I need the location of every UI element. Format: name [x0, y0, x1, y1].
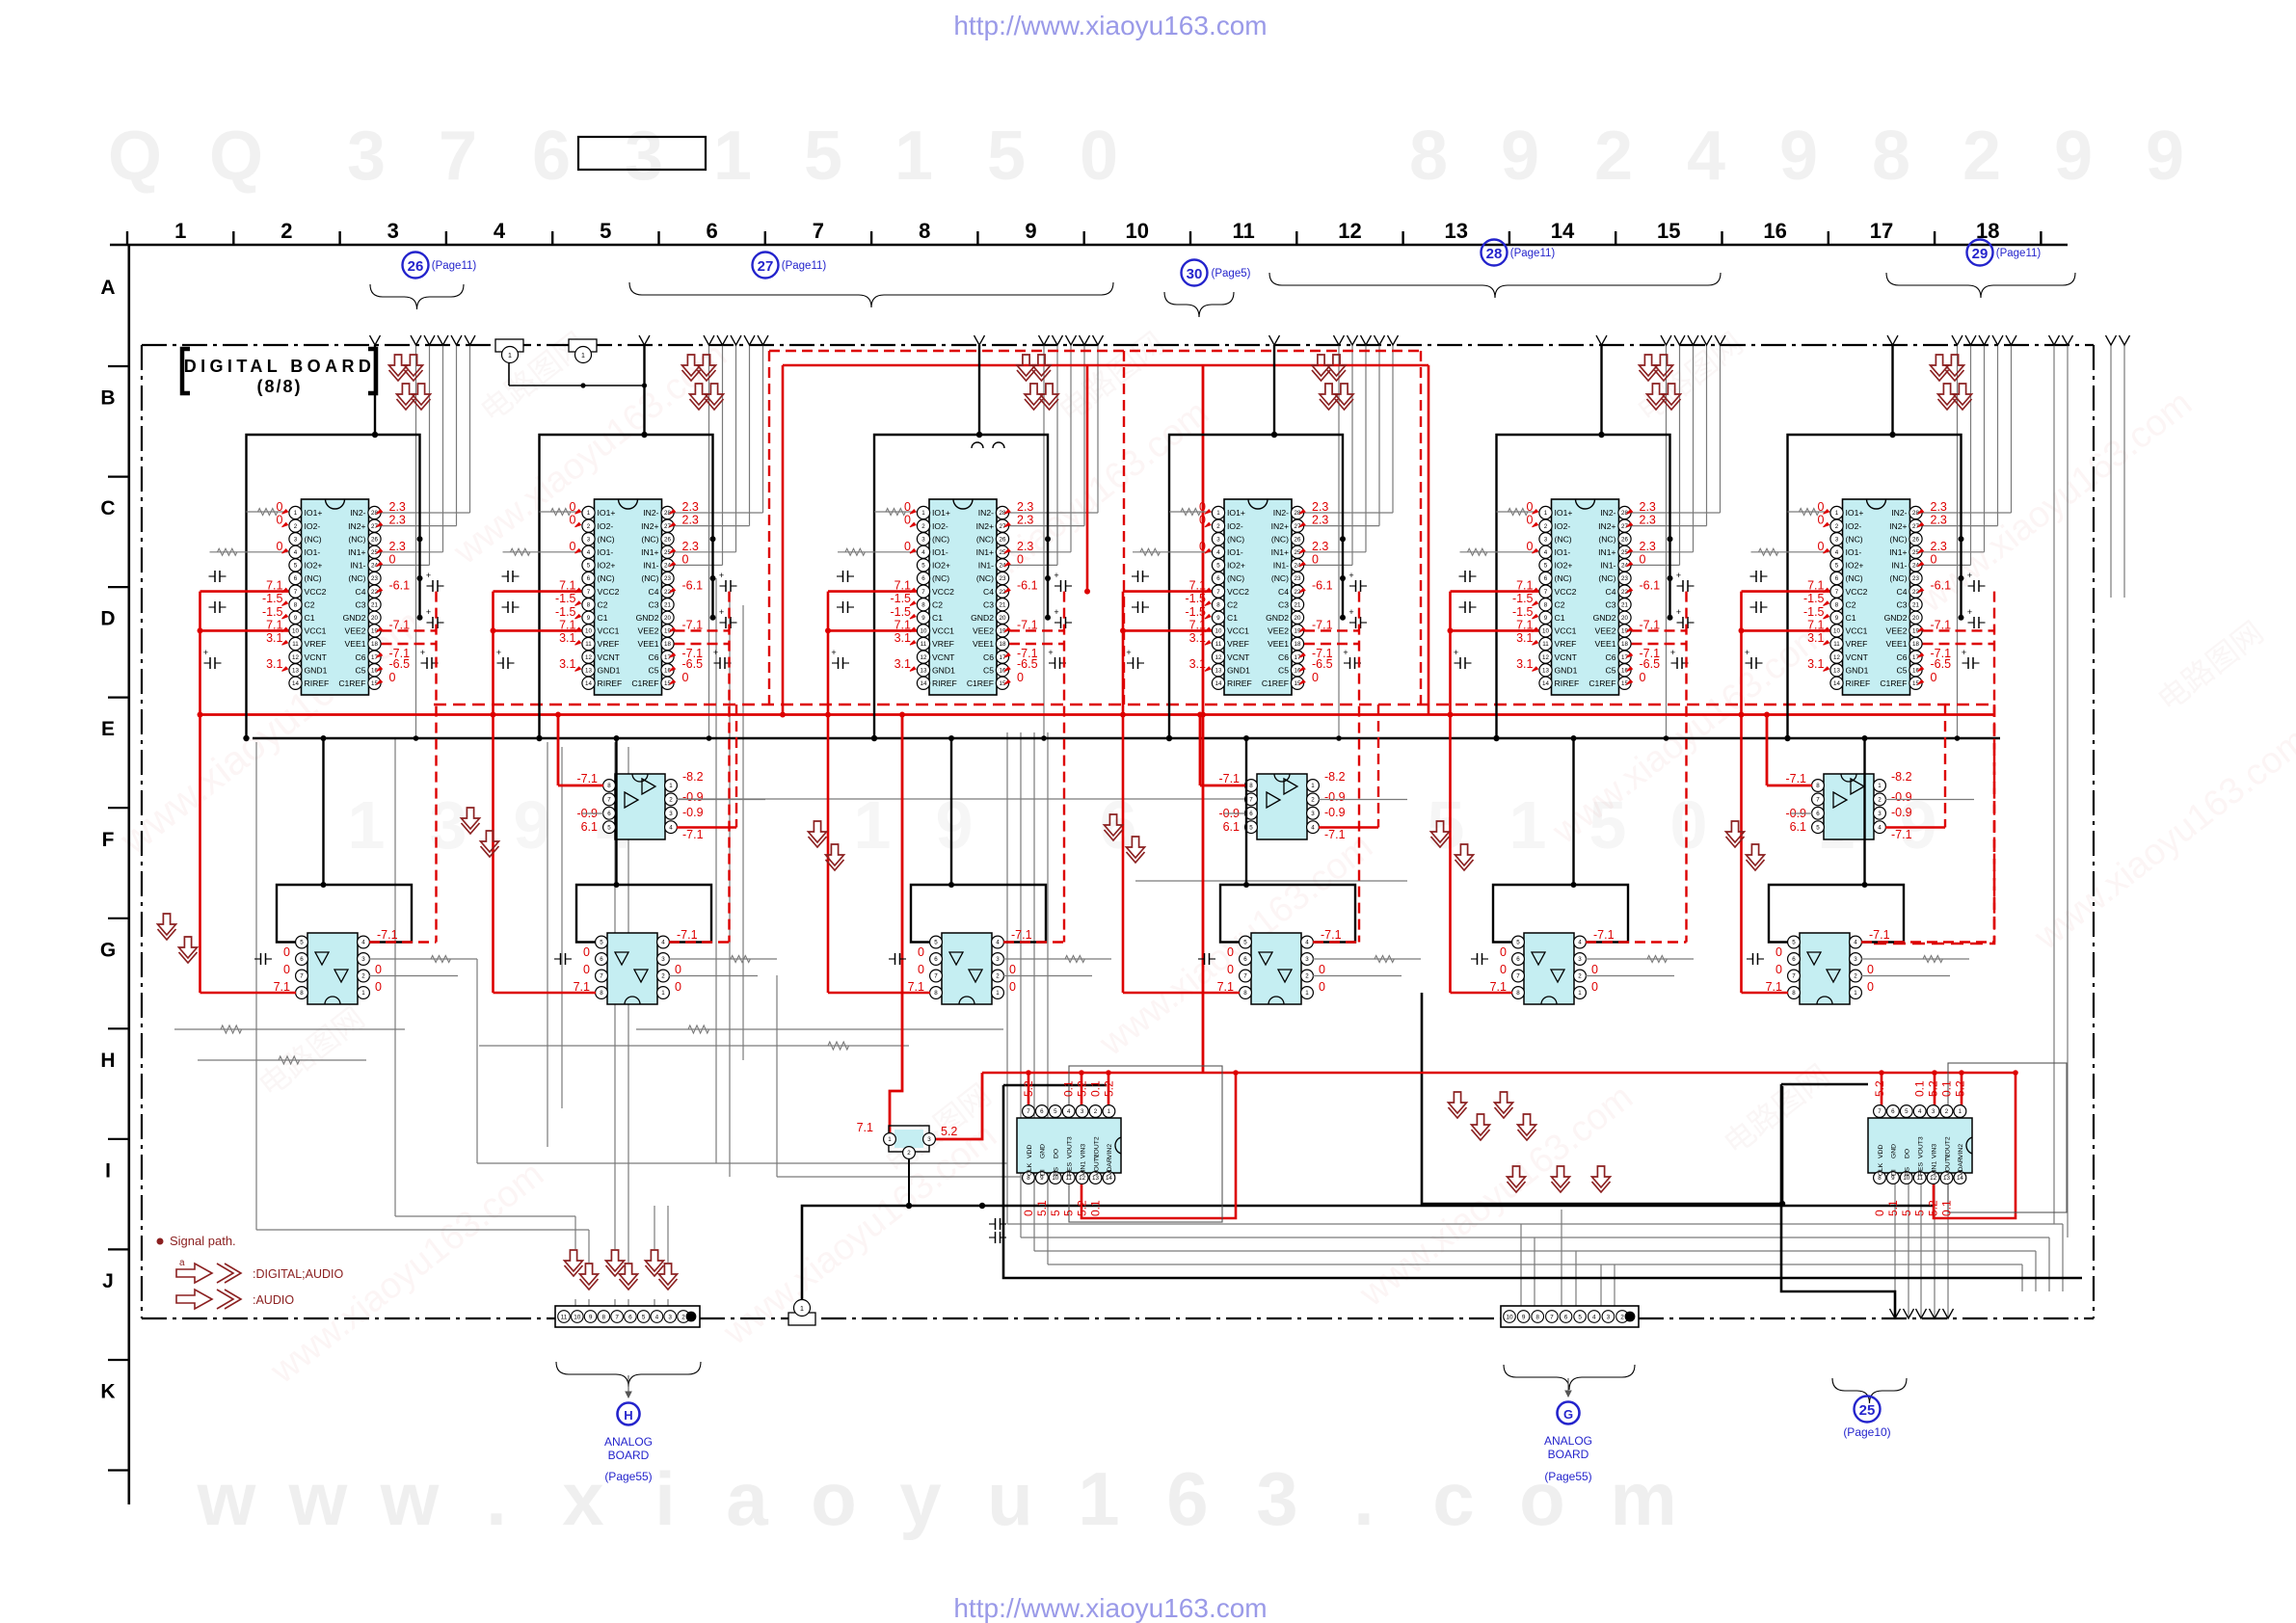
svg-text:9: 9 — [1544, 615, 1548, 622]
svg-text:IN1+: IN1+ — [641, 547, 658, 557]
svg-text:VCNT: VCNT — [932, 652, 955, 662]
svg-text:6: 6 — [532, 118, 571, 195]
svg-text:13: 13 — [1833, 667, 1840, 674]
signal arrows above IC3 — [1017, 355, 1035, 376]
svg-text:14: 14 — [1215, 680, 1222, 687]
reference 27 (Page11) — [753, 253, 779, 279]
DAC IC2 red dashed VEE wiring — [675, 629, 730, 631]
row G op-amp grey output wiring (column 3) — [1003, 958, 1111, 960]
svg-text:m: m — [1610, 1456, 1676, 1541]
DAC IC4 body — [1224, 499, 1292, 695]
svg-text:o: o — [811, 1456, 857, 1541]
svg-text:1: 1 — [581, 353, 585, 359]
svg-text:VEE2: VEE2 — [638, 626, 659, 636]
svg-text:a: a — [726, 1456, 768, 1541]
svg-text:2: 2 — [661, 973, 665, 980]
svg-text:0.1: 0.1 — [1940, 1200, 1954, 1216]
svg-text:VREF: VREF — [1227, 639, 1249, 649]
svg-text:7: 7 — [300, 973, 304, 980]
svg-text:6: 6 — [921, 575, 925, 582]
svg-text:VEE1: VEE1 — [973, 639, 994, 649]
svg-text:2: 2 — [587, 523, 591, 530]
svg-text:VIN1: VIN1 — [1080, 1161, 1086, 1176]
DAC IC4 pins right — [1291, 506, 1303, 519]
svg-text:6: 6 — [607, 811, 611, 817]
svg-text:9: 9 — [2146, 118, 2184, 195]
svg-text:26: 26 — [371, 536, 378, 543]
svg-text:3: 3 — [1256, 1456, 1297, 1541]
svg-text:0: 0 — [904, 540, 911, 553]
svg-text:8: 8 — [600, 990, 603, 997]
svg-text:0.1: 0.1 — [1940, 1080, 1954, 1097]
svg-text:21: 21 — [1000, 601, 1006, 608]
svg-text:VEE1: VEE1 — [345, 639, 366, 649]
svg-text:2: 2 — [1578, 973, 1582, 980]
svg-text:0: 0 — [1080, 118, 1118, 195]
svg-text:2: 2 — [1962, 118, 2001, 195]
DAC IC6 pins right — [1909, 506, 1922, 519]
svg-text:7: 7 — [615, 1314, 619, 1320]
svg-text:-1.5: -1.5 — [890, 605, 911, 619]
svg-text:J: J — [102, 1270, 114, 1292]
svg-text:(NC): (NC) — [1227, 534, 1244, 544]
svg-text:6: 6 — [300, 956, 304, 963]
svg-text:18: 18 — [664, 641, 671, 648]
svg-text:C1: C1 — [932, 613, 943, 623]
svg-text:C2: C2 — [305, 599, 315, 609]
svg-text:12: 12 — [292, 654, 299, 661]
svg-text:6: 6 — [600, 956, 603, 963]
svg-text:2.3: 2.3 — [389, 514, 406, 527]
svg-text:DO: DO — [1054, 1149, 1060, 1158]
svg-text:2.3: 2.3 — [682, 540, 699, 553]
svg-text:+: + — [1454, 648, 1458, 657]
svg-text:RIREF: RIREF — [932, 678, 957, 688]
svg-text:+: + — [831, 648, 836, 657]
svg-text:2: 2 — [1544, 523, 1548, 530]
svg-text:-7.1: -7.1 — [1891, 828, 1912, 841]
svg-text:-7.1: -7.1 — [1593, 928, 1615, 942]
svg-text:23: 23 — [1000, 575, 1006, 582]
svg-text:5: 5 — [1243, 940, 1247, 946]
DAC IC5 red dashed VEE wiring — [1632, 629, 1687, 631]
thin enclosure box right filter IC — [1948, 1063, 2067, 1212]
bypass caps right of IC4 — [1349, 585, 1356, 587]
svg-text:0: 0 — [1775, 945, 1782, 959]
svg-text:VOUT1: VOUT1 — [1944, 1154, 1951, 1176]
svg-text:B: B — [100, 387, 115, 410]
svg-text:26: 26 — [1000, 536, 1006, 543]
svg-text:VIN1: VIN1 — [1931, 1161, 1937, 1176]
svg-text:1: 1 — [1078, 1456, 1119, 1541]
svg-text:1: 1 — [587, 510, 591, 517]
svg-text:0: 0 — [675, 980, 681, 994]
svg-text:6: 6 — [1516, 956, 1520, 963]
svg-text:2.3: 2.3 — [389, 540, 406, 553]
svg-text:A: A — [100, 277, 115, 299]
svg-text:6.1: 6.1 — [581, 820, 598, 834]
svg-text:30: 30 — [1187, 266, 1203, 282]
svg-text:8: 8 — [587, 601, 591, 608]
svg-text:RIREF: RIREF — [1227, 678, 1252, 688]
svg-text:VEE2: VEE2 — [1886, 626, 1908, 636]
grey bus lines row J left half — [477, 1162, 1007, 1164]
svg-text:25: 25 — [1859, 1402, 1876, 1419]
svg-text:GND2: GND2 — [1593, 613, 1616, 623]
svg-text:0: 0 — [389, 671, 396, 684]
svg-text:+: + — [1670, 648, 1675, 657]
svg-text:IO2+: IO2+ — [1555, 561, 1573, 571]
grey wires row I right IC to board edge — [1894, 1178, 1896, 1318]
svg-text:2: 2 — [1311, 797, 1315, 804]
svg-text:1: 1 — [508, 353, 512, 359]
svg-text:-0.9: -0.9 — [1324, 790, 1346, 804]
svg-text:IN1-: IN1- — [1891, 561, 1907, 571]
svg-text:2.3: 2.3 — [389, 500, 406, 514]
svg-text:1: 1 — [348, 787, 386, 863]
svg-text:VIN3: VIN3 — [1931, 1144, 1937, 1158]
red path analog switch to row I bus — [929, 1073, 982, 1139]
DAC IC1 pins left — [289, 506, 302, 519]
svg-text:7: 7 — [600, 973, 603, 980]
svg-text:IO1-: IO1- — [1555, 547, 1571, 557]
svg-text:18: 18 — [1912, 641, 1919, 648]
svg-text:11: 11 — [585, 641, 592, 648]
svg-text:4: 4 — [1687, 118, 1725, 195]
svg-text:IN2-: IN2- — [1273, 508, 1289, 518]
DAC IC5 pins left — [1539, 506, 1552, 519]
svg-text:x: x — [562, 1456, 603, 1541]
row F op-amp grey wiring (column 4) — [1319, 799, 1407, 801]
svg-text:10: 10 — [1126, 219, 1149, 243]
svg-text:C1REF: C1REF — [338, 678, 365, 688]
svg-text:8: 8 — [1835, 601, 1839, 608]
svg-text:C4: C4 — [1278, 587, 1289, 597]
svg-text:C1REF: C1REF — [967, 678, 994, 688]
svg-text:-7.1: -7.1 — [1312, 647, 1333, 660]
svg-text:i: i — [654, 1456, 676, 1541]
svg-text:20: 20 — [371, 615, 378, 622]
svg-text:8: 8 — [1516, 990, 1520, 997]
row I bypass caps — [989, 1223, 996, 1225]
svg-text:0: 0 — [1199, 500, 1206, 514]
svg-text:IN2+: IN2+ — [1271, 521, 1289, 531]
svg-text:IN2+: IN2+ — [641, 521, 658, 531]
svg-text:-6.1: -6.1 — [682, 579, 704, 593]
svg-text:3.1: 3.1 — [559, 657, 575, 671]
brace under 28 — [1269, 273, 1721, 298]
svg-text:4: 4 — [1918, 1108, 1922, 1115]
svg-text:21: 21 — [371, 601, 378, 608]
DAC IC3 pins left — [917, 506, 929, 519]
board-to-board connector CN-G — [1501, 1306, 1639, 1327]
svg-text:0: 0 — [1527, 514, 1534, 527]
svg-text:0: 0 — [375, 963, 382, 976]
svg-text:-7.1: -7.1 — [1321, 928, 1342, 942]
svg-text:2: 2 — [921, 523, 925, 530]
svg-text:3: 3 — [361, 956, 365, 963]
svg-text:0: 0 — [1022, 1210, 1035, 1216]
svg-text:20: 20 — [664, 615, 671, 622]
svg-text:(NC): (NC) — [598, 534, 615, 544]
svg-text:18: 18 — [1295, 641, 1301, 648]
svg-text:6: 6 — [1544, 575, 1548, 582]
svg-text:16: 16 — [1763, 219, 1786, 243]
svg-text:3: 3 — [1544, 536, 1548, 543]
svg-text:1: 1 — [661, 990, 665, 997]
svg-text:2.3: 2.3 — [1312, 500, 1328, 514]
svg-text:5: 5 — [1428, 787, 1465, 863]
svg-text:http://www.xiaoyu163.com: http://www.xiaoyu163.com — [953, 11, 1267, 40]
row G op-amp grey output wiring (column 4) — [1313, 958, 1421, 960]
svg-text:3.1: 3.1 — [894, 631, 911, 645]
svg-text:26: 26 — [664, 536, 671, 543]
svg-text:13: 13 — [292, 667, 299, 674]
arrow to circle G — [1567, 1378, 1569, 1397]
svg-text:c: c — [1432, 1456, 1474, 1541]
svg-text:-1.5: -1.5 — [555, 605, 576, 619]
svg-text:IN1-: IN1- — [350, 561, 365, 571]
row F dual op-amp IC (column 6) — [1824, 774, 1874, 839]
svg-text:-7.1: -7.1 — [1017, 647, 1038, 660]
svg-text:5: 5 — [1249, 824, 1253, 831]
svg-text:IO1+: IO1+ — [1227, 508, 1245, 518]
svg-text:VCC1: VCC1 — [1227, 626, 1249, 636]
svg-text:2.3: 2.3 — [1017, 500, 1033, 514]
svg-text:C5: C5 — [983, 665, 994, 675]
svg-text:1: 1 — [713, 118, 752, 195]
row F dual op-amp IC (column 2) — [615, 774, 665, 839]
svg-text:5: 5 — [1544, 563, 1548, 570]
DAC IC2 junction dots on outer rectangle — [710, 536, 716, 542]
DAC IC5 pins right — [1618, 506, 1631, 519]
svg-text:26: 26 — [1912, 536, 1919, 543]
svg-text:8: 8 — [602, 1314, 606, 1320]
row G op-amp red wiring (column 5) — [1451, 992, 1513, 995]
svg-text:0: 0 — [1640, 552, 1646, 566]
svg-text:-1.5: -1.5 — [1803, 605, 1825, 619]
red drops to right filter IC pins — [1881, 1073, 1883, 1105]
svg-text:0: 0 — [1227, 963, 1234, 976]
svg-text:GND2: GND2 — [971, 613, 994, 623]
svg-text:0: 0 — [1500, 963, 1507, 976]
svg-text:0: 0 — [283, 945, 290, 959]
svg-text:w: w — [197, 1456, 256, 1541]
DAC IC6 red supply wiring — [1740, 592, 1743, 993]
svg-text:IN1+: IN1+ — [348, 547, 365, 557]
svg-text:IO1+: IO1+ — [1555, 508, 1573, 518]
svg-text:2.3: 2.3 — [1640, 500, 1656, 514]
svg-text:VDAR: VDAR — [1958, 1157, 1964, 1176]
svg-text:VCC2: VCC2 — [1846, 587, 1868, 597]
svg-text:1: 1 — [1959, 1108, 1962, 1115]
row F op-amp grey wiring (column 6) — [1885, 799, 1974, 801]
svg-text:C1: C1 — [305, 613, 315, 623]
DAC IC3 pins right — [996, 506, 1008, 519]
signal arrows above IC1 — [389, 355, 408, 376]
svg-text:9: 9 — [1501, 118, 1539, 195]
svg-text:5: 5 — [1516, 940, 1520, 946]
svg-text:-1.5: -1.5 — [1185, 592, 1206, 605]
svg-text:3: 3 — [996, 956, 1000, 963]
svg-text:1: 1 — [996, 990, 1000, 997]
svg-text:7: 7 — [1550, 1314, 1554, 1320]
svg-text:1: 1 — [1509, 787, 1547, 863]
svg-text:2.3: 2.3 — [1017, 514, 1033, 527]
DAC IC1 outer wire rectangle — [247, 435, 420, 738]
DAC IC3 top supply stub — [978, 345, 980, 435]
svg-text:5: 5 — [987, 118, 1026, 195]
black vertical col2 top link — [508, 363, 510, 386]
svg-text:4: 4 — [1835, 549, 1839, 556]
svg-text:3: 3 — [387, 219, 399, 243]
svg-text:BS: BS — [1054, 1166, 1060, 1176]
svg-text:20: 20 — [1621, 615, 1628, 622]
grey bus lines rows I-J — [1007, 1223, 2063, 1225]
svg-text:3: 3 — [1578, 956, 1582, 963]
DAC IC2 body — [595, 499, 662, 695]
svg-text:(Page11): (Page11) — [432, 260, 477, 272]
svg-text:10: 10 — [921, 628, 927, 635]
svg-text:+: + — [420, 648, 425, 657]
svg-text:27: 27 — [758, 258, 774, 275]
svg-text:IO1-: IO1- — [598, 547, 614, 557]
svg-text:5.2: 5.2 — [1953, 1080, 1966, 1097]
svg-text:6: 6 — [1166, 1456, 1208, 1541]
DAC IC6 red dashed VEE wiring — [1923, 629, 1995, 631]
svg-text:(NC): (NC) — [1598, 573, 1615, 583]
svg-text:9: 9 — [1025, 219, 1036, 243]
svg-text:14: 14 — [585, 680, 592, 687]
svg-text:3.1: 3.1 — [1807, 631, 1824, 645]
svg-text:2: 2 — [1945, 1108, 1949, 1115]
DAC IC1 junction dots on outer rectangle — [417, 536, 423, 542]
svg-text:(NC): (NC) — [1555, 534, 1572, 544]
svg-text:(Page11): (Page11) — [1996, 248, 2042, 259]
svg-text:+: + — [1054, 571, 1058, 580]
svg-text:1: 1 — [1305, 990, 1309, 997]
brace under connector H — [556, 1362, 701, 1387]
svg-text:K: K — [100, 1381, 115, 1403]
svg-text:8: 8 — [300, 990, 304, 997]
svg-text:C2: C2 — [1555, 599, 1565, 609]
svg-text:IO1+: IO1+ — [305, 508, 323, 518]
bypass caps right of IC5 — [1677, 585, 1684, 587]
signal arrows above IC2 — [682, 355, 701, 376]
svg-text:-7.1: -7.1 — [576, 772, 598, 785]
svg-text:9: 9 — [1522, 1314, 1526, 1320]
svg-text:(NC): (NC) — [1598, 534, 1615, 544]
svg-text:C3: C3 — [1606, 599, 1616, 609]
svg-text:1: 1 — [361, 990, 365, 997]
svg-text:VCC2: VCC2 — [1227, 587, 1249, 597]
svg-text:0: 0 — [1527, 540, 1534, 553]
row G op-amp grey output wiring (column 1) — [369, 958, 477, 960]
row F dual op-amp IC (column 4) — [1257, 774, 1307, 839]
svg-text:-1.5: -1.5 — [1512, 605, 1534, 619]
svg-text:10: 10 — [1542, 628, 1549, 635]
svg-text:C6: C6 — [356, 652, 366, 662]
svg-text:5: 5 — [642, 1314, 646, 1320]
signal arrows above connector G — [1449, 1092, 1467, 1113]
svg-text:4: 4 — [1878, 824, 1882, 831]
svg-text:C6: C6 — [1278, 652, 1289, 662]
svg-text:15: 15 — [1657, 219, 1680, 243]
svg-text:C4: C4 — [983, 587, 994, 597]
svg-text:C1REF: C1REF — [1262, 678, 1289, 688]
svg-text:4: 4 — [921, 549, 925, 556]
reference circle 25 (Page10) — [1855, 1397, 1881, 1423]
svg-text:+: + — [1967, 571, 1972, 580]
DAC IC1 body — [302, 499, 369, 695]
svg-text:ANALOG: ANALOG — [1544, 1434, 1592, 1448]
svg-text:Signal path.: Signal path. — [170, 1234, 236, 1248]
svg-text:0: 0 — [1199, 540, 1206, 553]
DAC IC1 red dashed VEE wiring — [382, 629, 437, 631]
svg-text:VCNT: VCNT — [1555, 652, 1578, 662]
red loop left filter IC — [1081, 1073, 1236, 1218]
svg-text:5.2: 5.2 — [1076, 1200, 1089, 1216]
svg-text:5: 5 — [1216, 563, 1220, 570]
svg-text:6: 6 — [628, 1314, 632, 1320]
svg-text:5.2: 5.2 — [1873, 1080, 1886, 1097]
svg-text:C4: C4 — [356, 587, 366, 597]
row G op-amp red wiring (column 3) — [828, 992, 930, 995]
svg-text:10: 10 — [574, 1314, 581, 1320]
svg-text:VIN2: VIN2 — [1958, 1144, 1964, 1158]
signal arrows above IC6 — [1931, 355, 1949, 376]
svg-text:6: 6 — [1792, 956, 1796, 963]
svg-text:0: 0 — [1818, 514, 1825, 527]
svg-text:17: 17 — [1870, 219, 1893, 243]
svg-text:0: 0 — [1312, 671, 1319, 684]
svg-text:2.3: 2.3 — [1931, 500, 1947, 514]
bypass caps right of IC2 — [720, 585, 727, 587]
red solid bus row I — [982, 1072, 2016, 1074]
svg-text:IN1+: IN1+ — [1598, 547, 1615, 557]
svg-text:13: 13 — [1215, 667, 1222, 674]
svg-text:-0.9: -0.9 — [1891, 806, 1912, 819]
svg-text:IN2-: IN2- — [978, 508, 994, 518]
svg-text:8: 8 — [919, 219, 930, 243]
svg-text:w: w — [380, 1456, 440, 1541]
svg-text:23: 23 — [664, 575, 671, 582]
svg-text:VCC1: VCC1 — [305, 626, 327, 636]
svg-text:6: 6 — [294, 575, 298, 582]
ruler column ticks — [126, 231, 128, 245]
DAC IC6 top supply stub — [1891, 345, 1893, 435]
svg-text:4: 4 — [294, 549, 298, 556]
DAC IC4 junction dots on outer rectangle — [1340, 536, 1346, 542]
svg-text:IN2-: IN2- — [643, 508, 658, 518]
svg-text:(Page55): (Page55) — [604, 1470, 652, 1483]
DAC IC5 top supply stub — [1600, 345, 1602, 435]
svg-text:2.3: 2.3 — [1312, 540, 1328, 553]
DAC IC5 junction dots on outer rectangle — [1668, 536, 1673, 542]
left border line — [128, 245, 131, 1504]
svg-text:(Page10): (Page10) — [1843, 1425, 1890, 1439]
svg-text:VEE2: VEE2 — [973, 626, 994, 636]
svg-text:0.1: 0.1 — [1913, 1080, 1927, 1097]
svg-text:5: 5 — [1816, 824, 1820, 831]
svg-text:RIREF: RIREF — [305, 678, 330, 688]
svg-text:3.1: 3.1 — [1189, 631, 1206, 645]
svg-text:C1: C1 — [1227, 613, 1238, 623]
svg-text:C5: C5 — [649, 665, 659, 675]
svg-text:0: 0 — [1591, 980, 1598, 994]
svg-text:VCC1: VCC1 — [1846, 626, 1868, 636]
svg-text:10: 10 — [1215, 628, 1222, 635]
